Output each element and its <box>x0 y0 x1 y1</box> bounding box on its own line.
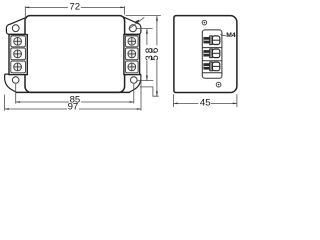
svg-text:72: 72 <box>69 2 80 13</box>
dim 45 ext right <box>236 94 238 107</box>
top-left tab ear <box>6 17 26 34</box>
dim 72 ext line left <box>24 6 26 25</box>
dim 97 ext right <box>140 77 142 111</box>
housing partition 3 <box>202 72 222 74</box>
bottom-left tab ear <box>5 74 17 92</box>
svg-text:56: 56 <box>150 46 161 61</box>
dim 72 line <box>25 6 68 8</box>
bottom-right tab ear <box>129 74 141 92</box>
dim 72 ext line right <box>124 6 126 14</box>
side screw row 2 <box>203 49 219 58</box>
side terminal housing <box>202 30 222 78</box>
side screw row 1 <box>203 36 219 45</box>
dim 45 ext left <box>173 94 175 107</box>
dim 85 line <box>16 101 69 103</box>
side screw row 3 <box>203 62 219 71</box>
front view body <box>25 16 125 93</box>
housing partition 2 <box>202 60 222 62</box>
dim 56 jog ext <box>140 87 159 96</box>
right terminal block <box>124 35 140 75</box>
left screws <box>14 37 22 70</box>
dim 45 line <box>174 102 199 104</box>
dim 38 line <box>146 29 148 45</box>
dim 56 line <box>156 16 158 46</box>
top-right tab ear <box>123 17 141 34</box>
dim 85 ext left <box>15 84 17 104</box>
svg-text:45: 45 <box>200 98 211 109</box>
side bottom screw hole <box>216 82 221 87</box>
dim 38 bottom ext <box>137 80 153 82</box>
hole bottom-right <box>131 77 138 84</box>
left terminal block <box>9 35 27 75</box>
hole top-left <box>12 25 19 32</box>
housing partition 1 <box>202 47 222 49</box>
dim 97 ext left <box>4 95 6 111</box>
dim 97 line <box>5 108 67 110</box>
M4 leader <box>220 34 226 35</box>
leader to top-right hole <box>129 17 145 29</box>
right screws <box>128 37 136 70</box>
dim 38 top ext <box>137 28 153 30</box>
svg-text:97: 97 <box>68 101 79 112</box>
side top screw hole <box>202 20 207 25</box>
dim 85 ext right <box>133 84 135 104</box>
bottom edge <box>16 91 130 93</box>
dim 72 arrows <box>25 7 29 9</box>
hole bottom-left <box>12 77 19 84</box>
svg-text:M4: M4 <box>226 32 236 39</box>
side view body <box>174 16 237 93</box>
hole top-right <box>129 25 136 32</box>
dim 56 top ext line <box>126 15 161 17</box>
